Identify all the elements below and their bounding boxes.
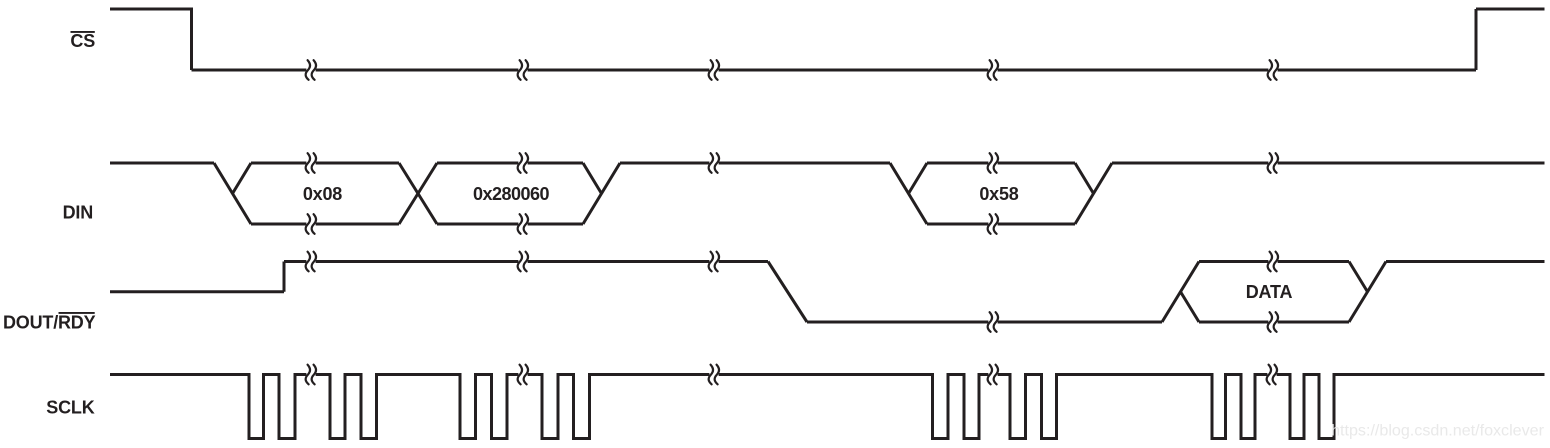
break mark on DIN bbox=[518, 153, 528, 173]
wire CS high segment (end) bbox=[1476, 8, 1545, 11]
break mark on DIN bbox=[988, 214, 998, 234]
signal label DOUT/RDY (overline on RDY) bbox=[3, 312, 96, 333]
signal label CS (with overline) bbox=[70, 31, 95, 51]
DOUT/RDY hexagon DATA bottom edge bbox=[1199, 321, 1349, 324]
DOUT/RDY transition out of DATA (falling branch) bbox=[1349, 262, 1368, 292]
break mark on DOUT/RDY bbox=[988, 312, 998, 332]
wire DOUT/RDY start segment (mid level) bbox=[110, 290, 284, 293]
DIN transition into 0x08 (falling diagonal) bbox=[214, 163, 251, 224]
wire DIN high segment (start) bbox=[110, 162, 214, 165]
svg-text:DOUT/RDY: DOUT/RDY bbox=[3, 313, 96, 333]
break mark on DIN bbox=[518, 214, 528, 234]
DIN hexagon 0x280060 top edge bbox=[437, 162, 583, 165]
break mark on SCLK bbox=[306, 365, 316, 385]
break mark on CS low line bbox=[709, 60, 719, 80]
break mark on SCLK bbox=[709, 365, 719, 385]
DOUT/RDY rising edge bbox=[283, 262, 286, 292]
DOUT/RDY transition into DATA (rising diagonal) bbox=[1162, 262, 1199, 323]
break mark on CS low line bbox=[1268, 60, 1278, 80]
break mark on DOUT/RDY bbox=[709, 252, 719, 272]
DIN crossover X rising diagonal bbox=[399, 163, 437, 224]
svg-text:0x58: 0x58 bbox=[979, 184, 1018, 204]
break mark on DIN bbox=[306, 214, 316, 234]
wire DOUT/RDY high segment (end) bbox=[1386, 260, 1545, 263]
DIN crossover X falling diagonal bbox=[399, 163, 437, 224]
break mark on DIN bbox=[1268, 153, 1278, 173]
svg-text:SCLK: SCLK bbox=[46, 398, 94, 418]
wire DIN high segment (end) bbox=[1112, 162, 1545, 165]
svg-text:DIN: DIN bbox=[63, 203, 93, 223]
svg-text:CS: CS bbox=[70, 31, 95, 51]
DIN hexagon 0x08 top edge bbox=[251, 162, 399, 165]
DOUT/RDY transition out of DATA (rising diagonal) bbox=[1349, 262, 1386, 323]
break mark on SCLK bbox=[988, 365, 998, 385]
wire CS low segment bbox=[192, 69, 1477, 72]
svg-text:https://blog.csdn.net/foxcleve: https://blog.csdn.net/foxclever bbox=[1331, 422, 1545, 440]
wire CS rising edge bbox=[1475, 9, 1478, 70]
DIN transition into 0x58 (falling diagonal) bbox=[890, 163, 927, 224]
break mark on CS low line bbox=[988, 60, 998, 80]
DIN hexagon 0x58 top edge bbox=[927, 162, 1075, 165]
DIN transition out of 0x280060 (falling branch) bbox=[583, 163, 602, 194]
DIN hexagon 0x58 bottom edge bbox=[927, 223, 1075, 226]
break mark on DIN bbox=[988, 153, 998, 173]
break mark on DOUT/RDY bbox=[306, 252, 316, 272]
break mark on CS low line bbox=[518, 60, 528, 80]
DOUT/RDY falling diagonal bbox=[768, 262, 807, 323]
break mark on DOUT/RDY bbox=[1268, 252, 1278, 272]
DOUT/RDY hexagon DATA top edge bbox=[1199, 260, 1349, 263]
DIN transition out of 0x58 (falling branch) bbox=[1075, 163, 1094, 194]
wire CS falling edge bbox=[190, 8, 193, 71]
DIN transition out of 0x58 (rising diagonal) bbox=[1075, 163, 1112, 224]
wire DOUT/RDY high segment bbox=[284, 260, 768, 263]
break mark on CS low line bbox=[306, 60, 316, 80]
DOUT/RDY transition into DATA (falling branch) bbox=[1181, 292, 1200, 322]
wire CS high segment (start) bbox=[110, 8, 192, 11]
break mark on SCLK bbox=[1267, 365, 1277, 385]
DIN transition out of 0x280060 (rising diagonal) bbox=[583, 163, 620, 224]
DIN hexagon 0x08 bottom edge bbox=[251, 223, 399, 226]
SCLK clock waveform with pulse bursts bbox=[110, 375, 1545, 439]
break mark on DIN bbox=[709, 153, 719, 173]
break mark on DIN bbox=[306, 153, 316, 173]
break mark on SCLK bbox=[518, 365, 528, 385]
DIN transition into 0x08 (rising branch) bbox=[233, 163, 252, 194]
svg-text:DATA: DATA bbox=[1246, 282, 1293, 302]
break mark on DOUT/RDY bbox=[518, 252, 528, 272]
wire DIN high segment (middle) bbox=[620, 162, 890, 165]
DIN hexagon 0x280060 bottom edge bbox=[437, 223, 583, 226]
DIN transition into 0x58 (rising branch) bbox=[909, 163, 928, 194]
break mark on DOUT/RDY bbox=[1268, 312, 1278, 332]
wire DOUT/RDY low segment bbox=[807, 321, 1162, 324]
svg-text:0x08: 0x08 bbox=[303, 184, 342, 204]
svg-text:0x280060: 0x280060 bbox=[473, 184, 550, 204]
